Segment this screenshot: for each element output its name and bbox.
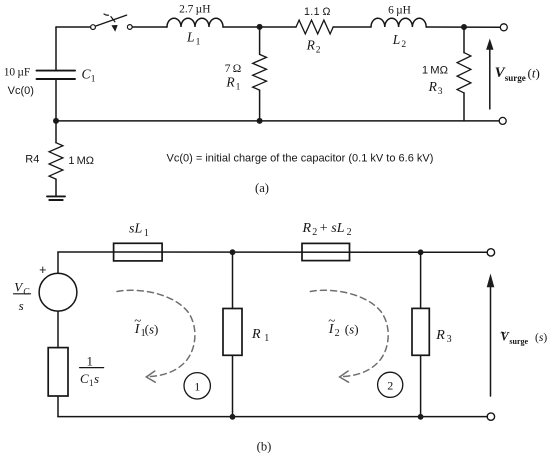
node dot top of R1 (b) <box>230 249 236 255</box>
wire L1 to R2 <box>223 26 296 28</box>
switch S1 cross tick <box>111 17 115 22</box>
capacitor C1 top plate <box>37 70 76 72</box>
node dot top of R1 <box>257 24 263 30</box>
wire R2 to L2 <box>333 26 371 28</box>
terminal top right (a) <box>500 24 507 31</box>
loop 2 arrowhead <box>340 371 349 382</box>
svg-text:R: R <box>251 327 261 342</box>
svg-text:2: 2 <box>347 227 352 238</box>
wire left vertical to source <box>57 252 59 273</box>
fraction bar 1/C1s <box>80 367 104 369</box>
resistor R2 <box>296 20 333 34</box>
svg-text:surge: surge <box>509 337 528 346</box>
svg-text:1 MΩ: 1 MΩ <box>422 64 448 76</box>
wire left vertical to capacitor <box>55 27 57 70</box>
fraction bar Vc/s <box>14 293 31 295</box>
svg-text:(b): (b) <box>257 440 272 453</box>
impedance box R2+sL2 <box>302 243 350 260</box>
svg-text:s: s <box>19 298 24 313</box>
node dot top of R3 <box>461 24 467 30</box>
svg-text:R: R <box>435 328 445 343</box>
svg-text:1 MΩ: 1 MΩ <box>68 155 94 167</box>
svg-text:2.7 µH: 2.7 µH <box>179 4 210 16</box>
svg-text:R: R <box>225 74 235 89</box>
inductor L2 <box>371 18 426 27</box>
resistor R1 vertical <box>259 27 261 54</box>
svg-text:3: 3 <box>447 334 452 345</box>
svg-text:(t): (t) <box>528 66 540 81</box>
node dot left bottom rail <box>53 118 59 124</box>
svg-text:R: R <box>302 221 312 236</box>
svg-text:surge: surge <box>505 73 526 83</box>
node dot top of R3 (b) <box>418 249 424 255</box>
wire C box to bottom rail <box>57 396 59 417</box>
terminal top right (b) <box>487 249 494 256</box>
svg-text:2: 2 <box>335 328 340 339</box>
node dot bottom of R1 <box>257 118 263 124</box>
svg-text:Vc(0): Vc(0) <box>8 85 34 97</box>
svg-text:10 µF: 10 µF <box>4 66 31 78</box>
svg-text:1: 1 <box>264 333 269 344</box>
svg-text:L: L <box>186 30 195 45</box>
svg-text:R4: R4 <box>25 153 39 165</box>
svg-text:1: 1 <box>236 82 241 92</box>
svg-text:1: 1 <box>89 378 94 388</box>
resistor R3 vertical <box>463 27 465 53</box>
wire L2 to right terminal <box>426 26 500 28</box>
svg-text:s: s <box>94 371 99 386</box>
svg-text:L: L <box>392 32 401 47</box>
inductor L1 <box>167 18 223 27</box>
svg-text:+: + <box>320 221 328 236</box>
bottom rail (b) <box>58 416 487 418</box>
svg-text:3: 3 <box>438 87 443 97</box>
svg-text:1: 1 <box>87 353 94 368</box>
svg-text:2: 2 <box>387 378 393 392</box>
svg-text:sL: sL <box>129 222 142 237</box>
circled node 2 <box>378 372 403 397</box>
svg-text:sL: sL <box>331 221 344 236</box>
switch S1 left terminal <box>91 25 96 30</box>
svg-text:2: 2 <box>312 227 317 238</box>
svg-text:C: C <box>80 371 89 386</box>
svg-text:(s): (s) <box>535 332 547 344</box>
wire capacitor to bottom rail <box>55 80 57 121</box>
arrow V_surge(s) <box>490 286 492 396</box>
switch S1 right terminal <box>127 25 132 30</box>
svg-text:2: 2 <box>401 40 406 50</box>
svg-text:(a): (a) <box>255 181 269 195</box>
impedance box sL1 <box>114 243 163 261</box>
svg-text:2: 2 <box>316 46 321 56</box>
terminal bottom right (b) <box>487 413 494 420</box>
resistor box R3 <box>420 252 422 308</box>
wire switch to L1 <box>132 26 167 28</box>
ground <box>47 195 65 197</box>
switch S1 blade <box>96 15 127 26</box>
resistor R4 vertical <box>55 121 57 143</box>
svg-text:6 µH: 6 µH <box>388 5 411 17</box>
bottom rail (a) <box>56 120 499 122</box>
svg-text:+: + <box>39 263 46 277</box>
svg-text:R: R <box>306 37 316 52</box>
svg-text:1: 1 <box>91 75 96 85</box>
terminal bottom right (a) <box>499 117 506 124</box>
source V circle <box>39 273 77 311</box>
svg-text:R: R <box>428 79 438 94</box>
node dot bottom of R3 (b) <box>418 414 424 420</box>
svg-text:1.1 Ω: 1.1 Ω <box>304 6 331 18</box>
switch S1 motion dash <box>104 14 109 15</box>
svg-text:1: 1 <box>144 228 149 239</box>
resistor box R1 <box>232 252 234 308</box>
node dot bottom of R1 (b) <box>230 414 236 420</box>
svg-text:1: 1 <box>194 379 200 393</box>
circled node 1 <box>184 373 210 399</box>
loop 1 dashed arc <box>117 290 195 376</box>
svg-text:(s): (s) <box>145 321 159 336</box>
arrow v_surge(t) <box>489 48 491 109</box>
wire top rail left segment <box>56 26 91 28</box>
svg-text:C: C <box>23 286 30 296</box>
svg-text:1: 1 <box>196 38 201 48</box>
svg-text:7 Ω: 7 Ω <box>225 63 241 75</box>
svg-text:Vc(0) = initial charge of the: Vc(0) = initial charge of the capacitor … <box>167 153 434 165</box>
switch S1 arrowhead <box>111 25 117 32</box>
capacitor C1 bottom plate <box>37 78 76 80</box>
loop 1 arrowhead <box>146 371 155 382</box>
svg-text:(s): (s) <box>345 321 359 336</box>
top rail (b) <box>58 251 487 253</box>
wire source to C box <box>57 311 59 348</box>
impedance box 1/C1s <box>48 348 68 396</box>
loop 2 dashed arc <box>310 290 388 376</box>
